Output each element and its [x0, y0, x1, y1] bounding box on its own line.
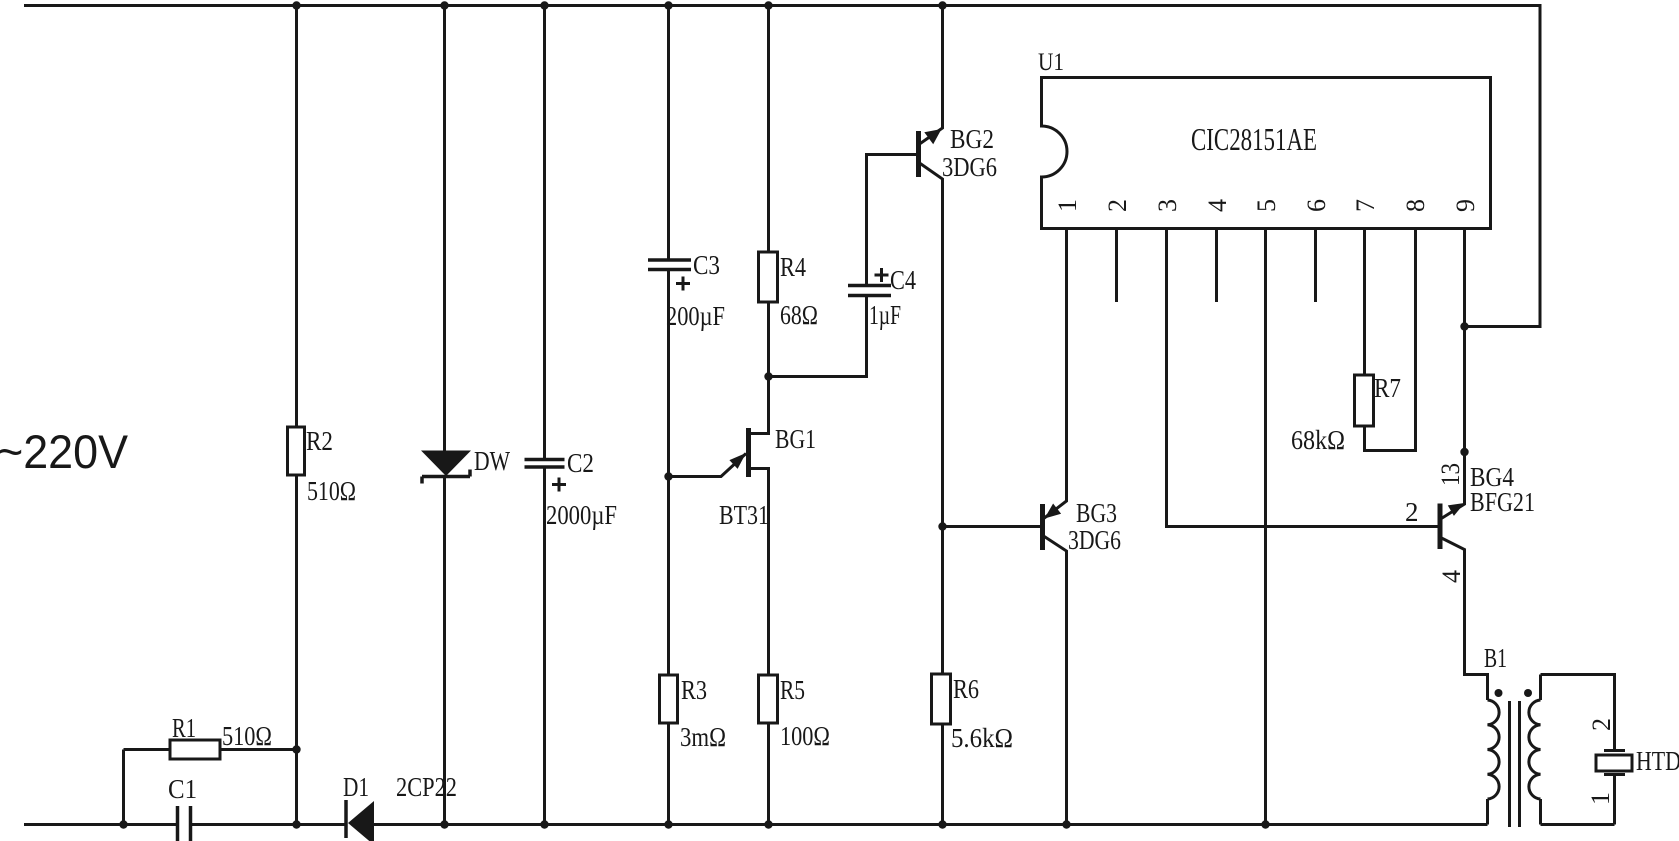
svg-text:7: 7	[1351, 199, 1380, 212]
svg-text:BT31: BT31	[719, 500, 769, 530]
svg-text:2000µF: 2000µF	[546, 500, 617, 530]
svg-text:9: 9	[1451, 199, 1480, 212]
svg-text:68kΩ: 68kΩ	[1291, 425, 1345, 455]
svg-text:2CP22: 2CP22	[396, 772, 457, 802]
svg-text:4: 4	[1203, 199, 1232, 212]
svg-text:3DG6: 3DG6	[942, 152, 997, 182]
svg-text:HTD: HTD	[1636, 746, 1679, 776]
svg-text:R7: R7	[1374, 373, 1401, 403]
svg-text:510Ω: 510Ω	[222, 721, 272, 751]
svg-text:510Ω: 510Ω	[307, 476, 356, 506]
svg-text:R5: R5	[780, 675, 805, 705]
svg-text:8: 8	[1401, 199, 1430, 212]
svg-text:B1: B1	[1484, 643, 1507, 673]
svg-text:BG1: BG1	[775, 424, 816, 454]
svg-text:R6: R6	[953, 674, 979, 704]
svg-text:68Ω: 68Ω	[780, 300, 818, 330]
svg-text:U1: U1	[1038, 49, 1064, 76]
svg-text:DW: DW	[474, 446, 510, 476]
svg-text:5: 5	[1252, 199, 1281, 212]
svg-text:6: 6	[1302, 199, 1331, 212]
svg-text:BFG21: BFG21	[1470, 487, 1535, 517]
svg-text:100Ω: 100Ω	[780, 721, 830, 751]
svg-text:C4: C4	[890, 265, 916, 295]
svg-text:2: 2	[1103, 199, 1132, 212]
svg-text:C3: C3	[693, 250, 720, 280]
svg-text:BG3: BG3	[1076, 498, 1117, 528]
svg-text:D1: D1	[343, 772, 369, 802]
svg-text:3mΩ: 3mΩ	[680, 722, 726, 752]
svg-text:2: 2	[1587, 718, 1616, 731]
svg-text:R3: R3	[681, 675, 707, 705]
svg-text:3DG6: 3DG6	[1068, 525, 1121, 555]
svg-text:5.6kΩ: 5.6kΩ	[951, 723, 1013, 753]
svg-text:200µF: 200µF	[666, 301, 725, 331]
svg-text:R2: R2	[306, 426, 333, 456]
svg-text:3: 3	[1153, 199, 1182, 212]
svg-text:1: 1	[1053, 199, 1082, 212]
svg-text:BG2: BG2	[950, 124, 994, 154]
svg-text:1: 1	[1586, 792, 1615, 805]
svg-text:1µF: 1µF	[869, 300, 901, 330]
svg-text:~220V: ~220V	[0, 425, 129, 478]
svg-text:2: 2	[1405, 497, 1419, 527]
svg-text:C1: C1	[168, 774, 197, 804]
svg-text:R4: R4	[780, 252, 806, 282]
svg-text:CIC28151AE: CIC28151AE	[1191, 121, 1317, 157]
svg-text:4: 4	[1437, 570, 1466, 583]
svg-text:C2: C2	[567, 448, 594, 478]
svg-text:R1: R1	[172, 713, 196, 743]
svg-text:13: 13	[1436, 463, 1465, 486]
